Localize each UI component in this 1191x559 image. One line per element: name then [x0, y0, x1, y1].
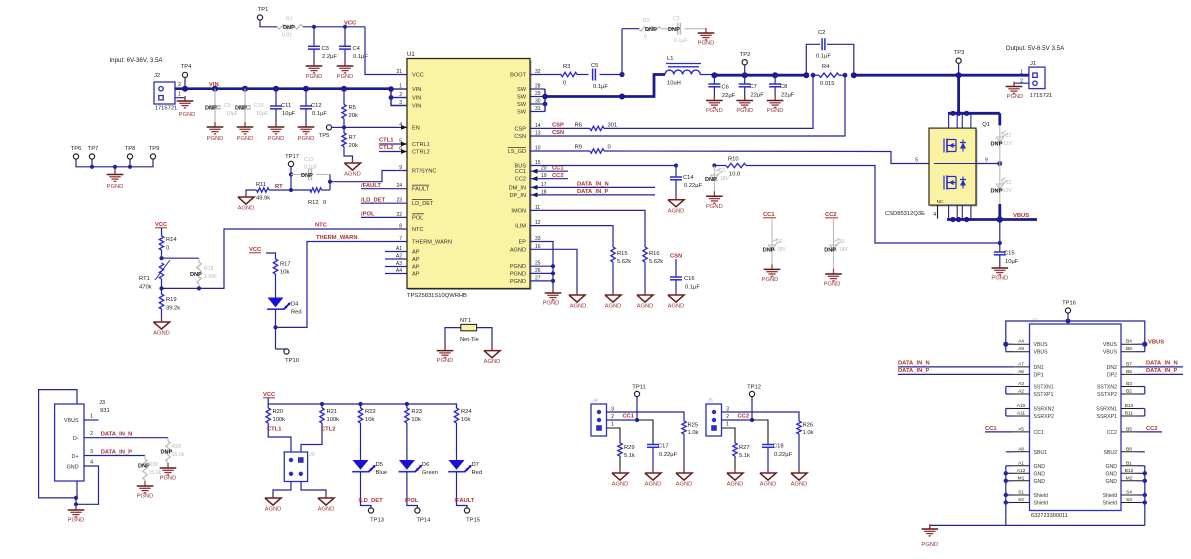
svg-text:R3: R3	[563, 64, 570, 70]
svg-text:VIN: VIN	[412, 87, 421, 93]
svg-text:2: 2	[611, 414, 614, 420]
svg-text:NT1: NT1	[460, 318, 471, 324]
svg-text:B6: B6	[1126, 369, 1132, 375]
svg-text:Output: 5V-6.5V 3.5A: Output: 5V-6.5V 3.5A	[1006, 45, 1065, 52]
svg-text:DN1: DN1	[1034, 365, 1044, 371]
svg-text:2: 2	[399, 92, 402, 98]
ground PGND C11	[275, 122, 277, 127]
zener DNP lower	[999, 164, 1001, 182]
wire EP PGND bracket	[530, 242, 553, 294]
capacitor C8 22uF	[772, 72, 778, 78]
resistor R23 10k	[406, 404, 408, 408]
svg-text:Shield: Shield	[1034, 501, 1049, 507]
test point TP8	[127, 154, 132, 159]
svg-text:0.015: 0.015	[820, 81, 835, 87]
svg-text:D5: D5	[376, 462, 383, 468]
connector J6	[284, 452, 307, 482]
svg-text:DNP: DNP	[824, 248, 836, 254]
svg-text:VCC: VCC	[412, 73, 424, 79]
svg-text:10k: 10k	[365, 417, 374, 423]
ground AGND R25	[683, 469, 685, 473]
svg-text:D3: D3	[838, 239, 845, 245]
wire J7 GND bracket left	[1005, 466, 1007, 526]
svg-text:VCC: VCC	[155, 222, 168, 228]
svg-text:D12: D12	[1002, 133, 1011, 139]
svg-text:C3: C3	[322, 46, 329, 52]
svg-text:PGND: PGND	[107, 184, 124, 190]
svg-text:TP11: TP11	[632, 385, 645, 391]
wire VBUS drain drop	[956, 72, 962, 78]
svg-text:J2: J2	[154, 73, 160, 79]
resistor R15 5.62k	[611, 247, 615, 262]
svg-text:SSRXN1: SSRXN1	[1096, 407, 1117, 413]
svg-text:24: 24	[396, 183, 402, 189]
zener D2 DNP 18V	[771, 218, 773, 242]
svg-text:R9: R9	[575, 145, 582, 151]
svg-text:R19: R19	[166, 297, 177, 303]
LED D4 Red	[268, 298, 284, 308]
ground PGND C10	[244, 122, 246, 127]
wire J5 pin1 to R27	[722, 428, 736, 443]
svg-text:AGND: AGND	[484, 359, 501, 365]
svg-text:R10: R10	[728, 157, 739, 163]
svg-text:/LD_DET: /LD_DET	[359, 498, 384, 504]
svg-text:10k: 10k	[411, 417, 420, 423]
svg-text:AGND: AGND	[676, 482, 693, 488]
svg-text:R30: R30	[149, 462, 159, 468]
ground PGND C4	[344, 61, 346, 66]
svg-text:C5: C5	[591, 63, 598, 69]
svg-text:2.2µF: 2.2µF	[322, 54, 337, 60]
svg-text:C15: C15	[1004, 251, 1015, 257]
svg-text:PGND: PGND	[767, 108, 784, 114]
junction R4 left	[803, 72, 809, 78]
svg-text:R29: R29	[624, 445, 635, 451]
svg-text:DATA_IN_P: DATA_IN_P	[1146, 368, 1177, 374]
test point TP10	[276, 348, 287, 350]
wire J7 SSRX pair brackets	[1006, 408, 1013, 410]
wire RT to U1 pin 9	[330, 171, 407, 182]
wire D4 cathode	[275, 310, 277, 350]
ground AGND C17	[652, 469, 654, 473]
ground PGND D3	[833, 269, 835, 274]
svg-text:10k: 10k	[461, 417, 470, 423]
svg-text:R12: R12	[308, 200, 319, 206]
wire J4 pin3 to R25	[607, 412, 685, 421]
svg-text:7: 7	[399, 236, 402, 242]
svg-text:Green: Green	[422, 470, 438, 476]
svg-text:PGND: PGND	[510, 271, 526, 277]
svg-text:SSRXP1: SSRXP1	[1097, 414, 1118, 420]
svg-text:22µF: 22µF	[751, 93, 765, 99]
svg-text:THERM_WARN: THERM_WARN	[412, 240, 452, 246]
ground PGND C6	[713, 96, 715, 101]
Q1 bottom pins	[949, 205, 958, 219]
wire C13 right leg	[329, 175, 331, 191]
svg-text:1: 1	[178, 92, 181, 98]
svg-text:J4: J4	[591, 398, 598, 404]
svg-text:TP3: TP3	[954, 50, 965, 56]
svg-text:C18: C18	[773, 444, 784, 450]
svg-text:1: 1	[726, 422, 729, 428]
svg-text:CSP: CSP	[514, 126, 526, 132]
svg-text:DNP: DNP	[235, 106, 247, 112]
net label CSP	[530, 127, 590, 129]
svg-text:PGND: PGND	[207, 136, 224, 142]
junction RT1 R19	[159, 286, 163, 290]
svg-text:VBUS: VBUS	[1148, 340, 1164, 346]
svg-text:R20: R20	[273, 409, 284, 415]
wire VCC to R17	[266, 253, 276, 259]
svg-text:DATA_IN_P: DATA_IN_P	[577, 189, 608, 195]
wire BUS net	[530, 165, 676, 167]
wire VCC to U1 pin 21	[365, 27, 407, 75]
svg-text:DNP: DNP	[991, 189, 1003, 195]
svg-text:VBUS: VBUS	[64, 418, 79, 424]
svg-text:Net-Tie: Net-Tie	[460, 337, 479, 343]
svg-text:TP13: TP13	[370, 518, 384, 524]
resistor R17 10k	[273, 259, 277, 274]
svg-text:GND: GND	[1034, 464, 1046, 470]
svg-text:LD_DET: LD_DET	[412, 201, 434, 207]
svg-text:0.1µF: 0.1µF	[593, 84, 608, 90]
wire R2 to C1	[661, 28, 675, 30]
svg-text:C12: C12	[311, 103, 322, 109]
svg-text:TP1: TP1	[258, 7, 269, 13]
ground PGND C3	[313, 61, 315, 66]
svg-text:CSN: CSN	[552, 130, 564, 136]
svg-text:RT/SYNC: RT/SYNC	[412, 169, 436, 175]
svg-text:0.1µF: 0.1µF	[353, 54, 368, 60]
ground PGND R28	[167, 463, 169, 468]
svg-text:1.0k: 1.0k	[803, 430, 814, 436]
svg-text:CTRL2: CTRL2	[412, 150, 430, 156]
svg-text:0.22µF: 0.22µF	[659, 452, 678, 458]
svg-text:EP: EP	[519, 240, 527, 246]
svg-text:AGND: AGND	[645, 482, 662, 488]
junction C14	[674, 163, 678, 167]
resistor R26 1.0k	[797, 421, 801, 434]
resistor R11 49.9k	[246, 190, 257, 197]
svg-text:0.22µF: 0.22µF	[684, 183, 703, 189]
resistor R22 10k	[360, 404, 362, 408]
zener D3 DNP 18V	[833, 218, 835, 242]
svg-text:SSRXN2: SSRXN2	[1034, 407, 1055, 413]
wire J7 VBUS top link	[1006, 321, 1145, 352]
wire J3 pin4 GND	[76, 466, 99, 504]
svg-text:301: 301	[608, 123, 618, 129]
svg-text:2: 2	[178, 82, 181, 88]
svg-text:R15: R15	[617, 251, 628, 257]
svg-text:AGND: AGND	[238, 206, 255, 212]
ground AGND R26	[798, 469, 800, 473]
wire snubber vertical	[621, 29, 623, 75]
test point TP13	[361, 503, 372, 508]
resistor R16 5.62k	[643, 247, 647, 262]
svg-text:CSN: CSN	[514, 134, 526, 140]
svg-text:PGND: PGND	[510, 279, 526, 285]
svg-text:1.0k: 1.0k	[688, 430, 699, 436]
wire BOOT pin 32	[530, 74, 561, 76]
svg-text:Shield: Shield	[1103, 501, 1118, 507]
svg-text:3: 3	[90, 449, 93, 455]
ground AGND R27	[734, 469, 736, 473]
resistor R3 0	[561, 72, 577, 76]
svg-text:DP2: DP2	[1107, 372, 1117, 378]
svg-text:DATA_IN_N: DATA_IN_N	[101, 432, 133, 438]
svg-text:D6: D6	[422, 462, 429, 468]
svg-text:L1: L1	[667, 56, 673, 62]
svg-text:R25: R25	[688, 423, 699, 429]
resistor R9 0	[590, 149, 604, 153]
capacitor C12 0.1uF	[303, 86, 309, 92]
svg-text:A10: A10	[1017, 403, 1026, 409]
svg-text:S2: S2	[1018, 497, 1024, 503]
svg-text:20k: 20k	[349, 113, 358, 119]
svg-text:DNP: DNP	[301, 173, 313, 179]
svg-text:DATA_IN_P: DATA_IN_P	[898, 368, 929, 374]
svg-text:Blue: Blue	[376, 470, 388, 476]
resistor R27 5.1k	[733, 443, 737, 456]
LED D5 Blue	[353, 460, 369, 470]
test point TP9	[150, 154, 155, 159]
wire CTL1 to J6	[268, 423, 291, 452]
svg-text:PGND: PGND	[762, 277, 779, 283]
svg-text:1: 1	[1020, 70, 1023, 76]
capacitor C4 0.1uF	[344, 27, 346, 47]
svg-text:PGND: PGND	[337, 74, 354, 80]
svg-text:CSN: CSN	[670, 254, 682, 260]
junction R14 RT1	[159, 256, 163, 260]
test point TP1	[257, 15, 262, 20]
svg-text:DATA_IN_N: DATA_IN_N	[1146, 361, 1178, 367]
svg-text:A4: A4	[1018, 339, 1024, 345]
svg-text:C13: C13	[304, 157, 314, 163]
svg-text:CC2: CC2	[1107, 430, 1117, 436]
svg-text:4: 4	[933, 212, 936, 218]
wire ILIM to R15	[530, 226, 613, 247]
svg-text:TP7: TP7	[88, 146, 99, 152]
svg-text:PGND: PGND	[698, 41, 715, 47]
wire J1 pin2 to ground	[1014, 83, 1029, 86]
svg-text:0: 0	[166, 246, 169, 252]
svg-text:18V: 18V	[839, 247, 849, 253]
svg-text:0.22µF: 0.22µF	[774, 452, 793, 458]
svg-text:5.1k: 5.1k	[739, 453, 750, 459]
svg-text:AGND: AGND	[605, 304, 622, 310]
wire AGND pin 16	[530, 249, 577, 295]
svg-text:R26: R26	[803, 423, 814, 429]
svg-text:D1: D1	[719, 168, 726, 174]
svg-text:FAULT: FAULT	[412, 187, 430, 193]
resistor R7 20k	[342, 133, 346, 147]
svg-text:DNP: DNP	[645, 27, 657, 33]
wire J2 pin1 to ground	[175, 98, 185, 101]
svg-text:SSRXP2: SSRXP2	[1034, 414, 1055, 420]
ground PGND snubber	[705, 28, 707, 33]
ground PGND R30	[144, 481, 146, 486]
svg-text:AGND: AGND	[510, 247, 526, 253]
ground AGND R16	[644, 291, 646, 295]
ground AGND R19	[161, 318, 163, 322]
test point TP5	[326, 125, 331, 130]
resistor R20 100k	[267, 404, 269, 408]
svg-text:DP_IN: DP_IN	[510, 193, 526, 199]
ground AGND C16	[675, 291, 677, 295]
svg-text:A3: A3	[1018, 381, 1024, 387]
wire TP6-TP9 bus	[76, 159, 153, 167]
svg-text:CTL2: CTL2	[321, 427, 336, 433]
svg-text:Q1: Q1	[982, 122, 990, 128]
ground AGND NT1	[491, 347, 493, 351]
svg-text:AGND: AGND	[570, 304, 587, 310]
svg-text:AGND: AGND	[668, 208, 685, 214]
ground PGND J2	[184, 96, 186, 101]
svg-text:S4: S4	[1126, 490, 1132, 496]
wire SBU stubs	[1006, 451, 1013, 453]
wire SW thick bus	[545, 75, 665, 97]
svg-text:CTL1: CTL1	[267, 427, 282, 433]
svg-text:D13: D13	[1002, 180, 1011, 186]
svg-text:22µF: 22µF	[722, 93, 736, 99]
svg-text:A5: A5	[1018, 426, 1024, 432]
wire CSN kelvin	[530, 75, 845, 136]
Q1 mosfet symbols	[934, 163, 976, 165]
svg-text:A1: A1	[1018, 460, 1024, 466]
svg-text:100k: 100k	[273, 417, 286, 423]
wire J3 shield loop	[39, 390, 77, 498]
svg-text:1: 1	[399, 84, 402, 90]
svg-text:TP4: TP4	[181, 64, 192, 70]
svg-text:0.1µF: 0.1µF	[312, 111, 327, 117]
svg-text:49.9k: 49.9k	[256, 196, 270, 202]
wire CSP kelvin	[604, 75, 813, 128]
svg-text:12V: 12V	[1003, 188, 1013, 194]
net label CC2 pin stub	[530, 178, 568, 180]
ground PGND D2	[771, 264, 773, 269]
svg-text:GND: GND	[1034, 471, 1046, 477]
ground PGND U1	[552, 288, 554, 293]
capacitor C18 0.22uF	[752, 420, 768, 445]
resistor R5 20k	[341, 86, 347, 92]
svg-text:POL: POL	[412, 215, 423, 221]
svg-text:0.1µF: 0.1µF	[674, 38, 687, 44]
svg-text:0.1µF: 0.1µF	[816, 54, 831, 60]
svg-text:CC2: CC2	[1146, 426, 1158, 432]
svg-text:C2: C2	[818, 30, 825, 36]
svg-text:PGND: PGND	[68, 518, 85, 524]
svg-text:B9: B9	[1126, 346, 1132, 352]
svg-text:21: 21	[396, 69, 402, 75]
wire D6 cathode	[406, 472, 408, 503]
wire CC2 to J7	[1138, 431, 1163, 433]
junction RT node	[328, 180, 332, 184]
resistor R24 10k	[456, 404, 458, 408]
wire C1 to PGND	[685, 29, 707, 33]
test point TP14	[407, 503, 418, 508]
ground PGND NT1	[444, 346, 446, 351]
svg-text:DATA_IN_N: DATA_IN_N	[577, 182, 609, 188]
svg-text:20k: 20k	[349, 143, 358, 149]
svg-text:NC: NC	[937, 199, 944, 204]
svg-text:22µF: 22µF	[781, 93, 795, 99]
ground AGND R7	[352, 159, 354, 163]
svg-text:632723300011: 632723300011	[1031, 513, 1068, 519]
svg-text:B8: B8	[1126, 446, 1132, 452]
svg-text:D4: D4	[291, 302, 299, 308]
wire IMON to R16	[530, 210, 645, 247]
svg-text:R23: R23	[411, 409, 422, 415]
capacitor C9 DNP 10uF	[212, 86, 218, 92]
svg-text:R22: R22	[365, 409, 376, 415]
svg-text:THERM_WARN: THERM_WARN	[316, 235, 358, 241]
svg-text:DP1: DP1	[1034, 372, 1044, 378]
wire SW pins bracket	[530, 88, 545, 90]
wire J3 pin1 stub	[84, 419, 99, 421]
wire Q1 pin9 to zener column	[976, 163, 1000, 165]
ground AGND J6 right	[325, 494, 327, 498]
svg-text:AP: AP	[412, 265, 420, 271]
svg-text:AGND: AGND	[612, 482, 629, 488]
svg-text:B4: B4	[1126, 339, 1132, 345]
svg-text:10µF: 10µF	[226, 111, 238, 117]
svg-text:VIN: VIN	[412, 104, 421, 110]
svg-text:C11: C11	[281, 103, 291, 109]
svg-text:DNP: DNP	[190, 272, 202, 278]
svg-text:DATA_IN_N: DATA_IN_N	[898, 361, 930, 367]
svg-text:D-: D-	[73, 436, 79, 442]
wire NT1 right	[477, 328, 492, 351]
zener DNP upper	[999, 125, 1001, 134]
svg-text:Shield: Shield	[1103, 493, 1118, 499]
svg-text:R14: R14	[166, 237, 177, 243]
svg-text:S1: S1	[1018, 490, 1024, 496]
svg-text:CC1: CC1	[763, 212, 775, 218]
svg-text:R27: R27	[739, 445, 750, 451]
wire J5 pin2 node	[722, 419, 753, 421]
svg-text:DATA_IN_P: DATA_IN_P	[101, 449, 132, 455]
svg-text:TP12: TP12	[747, 385, 761, 391]
svg-text:PGND: PGND	[921, 542, 938, 548]
svg-text:PGND: PGND	[510, 264, 526, 270]
svg-text:J6: J6	[308, 452, 315, 458]
wire J3 pin2 DATA_IN_N	[84, 437, 168, 439]
svg-text:9: 9	[985, 158, 988, 164]
svg-text:R28: R28	[172, 444, 182, 450]
svg-text:B1: B1	[1126, 460, 1132, 466]
zener D1 DNP 18V	[713, 166, 715, 172]
svg-text:TP14: TP14	[416, 518, 431, 524]
svg-text:0: 0	[323, 200, 326, 206]
svg-text:TP17: TP17	[285, 154, 299, 160]
junction BOOT-SW	[619, 72, 624, 77]
svg-text:TP10: TP10	[285, 358, 299, 364]
junction D1	[712, 163, 716, 167]
svg-text:AP: AP	[412, 257, 420, 263]
wire DM_IN stub DATA_IN_N	[530, 186, 655, 188]
svg-text:DN2: DN2	[1107, 365, 1117, 371]
capacitor C10 DNP 10uF	[242, 86, 248, 92]
svg-text:D2: D2	[776, 239, 783, 245]
ground AGND R15	[612, 291, 614, 295]
svg-text:A9: A9	[1018, 346, 1024, 352]
svg-text:PGND: PGND	[298, 136, 315, 142]
svg-text:R5: R5	[349, 105, 356, 111]
svg-text:S3: S3	[1126, 497, 1132, 503]
svg-text:AGND: AGND	[760, 482, 777, 488]
svg-text:DNP: DNP	[991, 142, 1003, 148]
net label CC1 pin stub	[530, 170, 568, 172]
